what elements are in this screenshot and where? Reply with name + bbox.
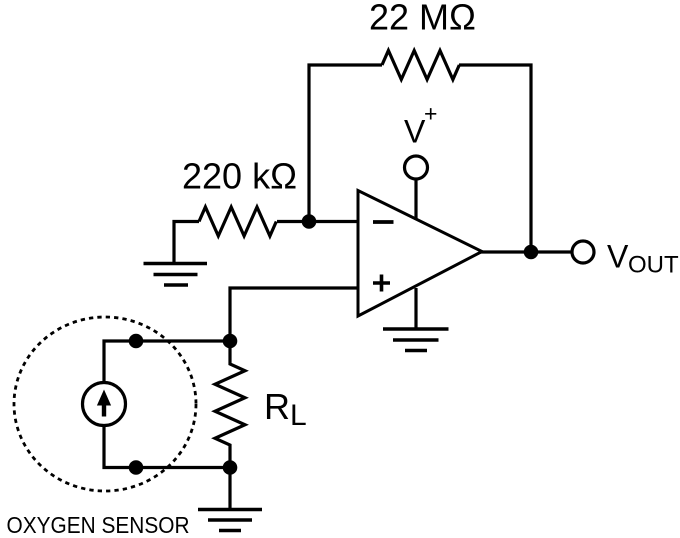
- ground GND1 (left): [144, 264, 208, 286]
- wire feedback top-left segment: [309, 65, 382, 222]
- wire V+ to op-amp: [414, 180, 417, 221]
- resistor R_IN 220 kΩ zigzag: [199, 207, 276, 236]
- svg-text:+: +: [424, 101, 437, 127]
- wire sensor bottom: [104, 426, 230, 468]
- ground GND2 (op-amp): [383, 329, 449, 351]
- wire non-inverting input: [230, 288, 358, 341]
- svg-text:L: L: [290, 399, 307, 432]
- svg-text:V: V: [607, 239, 629, 275]
- resistor R_F 22 MΩ zigzag: [382, 51, 459, 80]
- wire sensor top: [104, 341, 230, 383]
- svg-text:OXYGEN SENSOR: OXYGEN SENSOR: [7, 512, 190, 538]
- wire R_L to ground: [228, 468, 231, 510]
- wire op-amp ground stub: [414, 288, 417, 329]
- svg-text:22 MΩ: 22 MΩ: [369, 0, 476, 38]
- op-amp minus sign: [373, 220, 394, 224]
- dashed sensor boundary circle: [14, 317, 196, 491]
- terminal circle VOUT: [572, 241, 594, 263]
- ground GND3 (sensor): [198, 510, 262, 531]
- svg-text:220 kΩ: 220 kΩ: [182, 156, 297, 197]
- op-amp plus sign: [373, 275, 390, 292]
- node dot inverting input: [302, 214, 317, 229]
- op-amp U1 triangle: [358, 191, 482, 317]
- node dot sensor top-right: [223, 334, 238, 349]
- svg-text:V: V: [404, 114, 426, 150]
- svg-text:R: R: [264, 386, 290, 427]
- wire inverting input: [277, 220, 358, 223]
- svg-text:OUT: OUT: [628, 252, 679, 279]
- node dot sensor bottom-left: [129, 460, 144, 475]
- terminal circle V+: [405, 156, 428, 179]
- current source CS1 circle: [83, 383, 126, 426]
- node dot sensor bottom-right: [223, 460, 238, 475]
- wire feedback top-right segment: [459, 65, 531, 252]
- wire output: [480, 250, 572, 253]
- resistor R_L vertical: [215, 341, 245, 468]
- wire 220k ground stub: [174, 222, 199, 264]
- node dot output: [524, 245, 539, 260]
- current source arrow: [97, 390, 111, 417]
- node dot sensor top-left: [129, 334, 144, 349]
